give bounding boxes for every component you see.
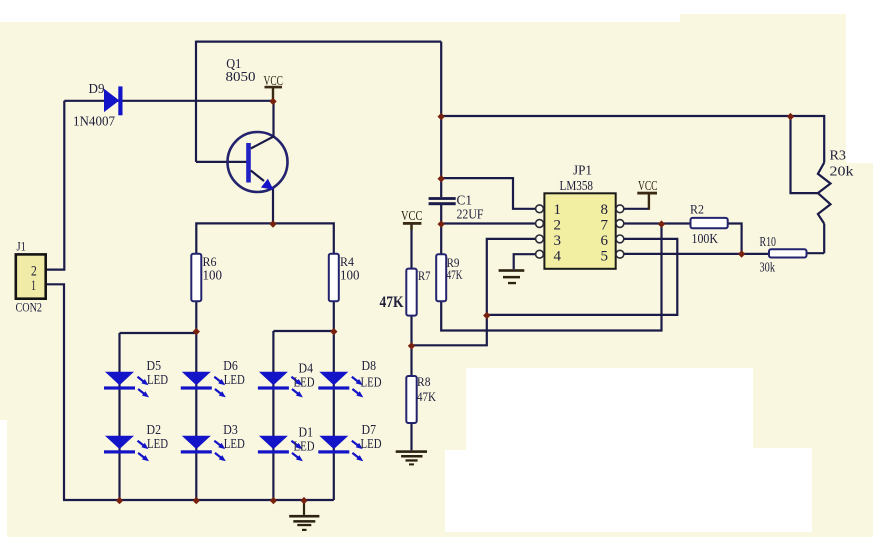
node ground tap — [300, 497, 307, 504]
wire main vertical C1 chain — [440, 42, 442, 198]
wire R3 tap — [791, 116, 819, 193]
wire LED column 2 — [195, 301, 197, 500]
wire left vertical to base — [195, 41, 197, 162]
svg-text:R8: R8 — [417, 374, 431, 389]
svg-text:20k: 20k — [830, 164, 854, 179]
wire bottom bus — [63, 499, 334, 501]
wire pin3 net — [412, 239, 537, 345]
svg-text:D5: D5 — [147, 358, 162, 373]
wire base — [196, 161, 247, 163]
VCC stub Q1 — [272, 88, 274, 101]
wire pin7 net — [624, 222, 691, 224]
svg-text:47K: 47K — [380, 294, 404, 311]
svg-text:LED: LED — [224, 372, 245, 387]
connector J1 — [16, 254, 46, 298]
svg-text:R2: R2 — [690, 202, 704, 217]
svg-text:22UF: 22UF — [457, 207, 484, 222]
diode D9 — [104, 86, 123, 115]
wire pin2 net — [441, 222, 536, 224]
LED D6 — [181, 372, 226, 398]
svg-text:100: 100 — [203, 268, 223, 283]
op-amp U1 JP1 box — [544, 193, 615, 268]
ground U1 pin4 — [499, 269, 525, 284]
wire LED column 3 — [272, 331, 274, 500]
svg-text:D3: D3 — [223, 422, 238, 437]
svg-text:D7: D7 — [362, 422, 377, 437]
svg-text:VCC: VCC — [264, 73, 284, 88]
LED D4 — [258, 372, 303, 398]
svg-text:VCC: VCC — [638, 178, 658, 193]
node R6 bottom — [193, 328, 200, 335]
wire R8 to ground — [410, 423, 412, 450]
wire LED column 1 — [118, 333, 120, 500]
svg-text:D4: D4 — [299, 361, 314, 376]
svg-text:C1: C1 — [457, 193, 473, 208]
svg-text:100K: 100K — [692, 231, 719, 246]
VCC bar U1 — [637, 192, 657, 195]
pin circles right — [616, 205, 624, 213]
svg-text:J1: J1 — [17, 239, 27, 254]
svg-text:CON2: CON2 — [16, 300, 43, 315]
svg-text:1: 1 — [31, 278, 36, 294]
svg-text:LED: LED — [147, 436, 168, 451]
svg-text:LM358: LM358 — [560, 178, 594, 193]
resistor R3 zigzag — [818, 163, 831, 224]
svg-text:LED: LED — [224, 436, 245, 451]
wire emitter vertical — [272, 188, 274, 223]
wire top bus — [196, 40, 441, 42]
svg-text:LED: LED — [294, 439, 315, 454]
svg-text:8: 8 — [601, 202, 609, 218]
svg-text:3: 3 — [554, 233, 562, 249]
resistor R4 — [329, 254, 339, 302]
resistor R8 — [406, 376, 416, 423]
svg-text:LED: LED — [361, 436, 382, 451]
LED D3 — [181, 436, 226, 462]
node emitter — [269, 220, 276, 227]
wire R9 bottom to pin7 riser — [441, 224, 661, 331]
svg-text:5: 5 — [601, 249, 609, 265]
svg-text:30k: 30k — [760, 260, 776, 275]
svg-text:47K: 47K — [447, 267, 463, 282]
LED D2 — [104, 436, 149, 462]
wire pin3 to pin6 — [487, 239, 678, 315]
svg-text:R10: R10 — [760, 234, 777, 249]
VCC bar R7 — [403, 222, 422, 225]
wire D9 net — [64, 100, 273, 102]
capacitor C1 — [429, 197, 456, 205]
svg-text:R7: R7 — [418, 268, 431, 283]
svg-text:4: 4 — [554, 249, 562, 265]
node pin7/R9/R2 — [658, 220, 665, 227]
node R3 branch — [438, 113, 445, 120]
wire segment col1 to R6 bottom — [120, 332, 197, 334]
svg-text:R3: R3 — [830, 148, 847, 163]
svg-text:8050: 8050 — [226, 69, 256, 84]
LED D1 — [258, 436, 303, 462]
ground LED bus — [289, 500, 319, 531]
wire pin4 net — [514, 254, 536, 269]
VCC stub U1 pin8 — [648, 195, 650, 210]
svg-text:D9: D9 — [89, 81, 105, 96]
wire R3 bottom — [823, 224, 825, 254]
wire J1 pin1 drop — [46, 284, 64, 500]
LED D7 — [318, 436, 363, 462]
svg-text:LED: LED — [361, 375, 382, 390]
resistor R2 — [691, 218, 728, 228]
VCC stub R7 — [410, 225, 412, 231]
svg-text:LED: LED — [294, 375, 315, 390]
wire LED column 4 — [333, 301, 335, 500]
node R7/R8 — [408, 342, 415, 349]
wire emitter bus — [196, 223, 333, 253]
svg-text:1N4007: 1N4007 — [73, 115, 115, 130]
svg-text:D1: D1 — [299, 425, 314, 440]
LED D8 — [318, 372, 363, 398]
wire R2 to pin5 — [728, 224, 742, 254]
svg-text:100: 100 — [340, 268, 360, 283]
wire J1 pin2 riser — [46, 101, 64, 270]
svg-text:LED: LED — [147, 372, 168, 387]
node R4 bottom — [330, 328, 337, 335]
wire pin1 net — [441, 178, 536, 209]
svg-text:D6: D6 — [223, 358, 238, 373]
wire pin8 net — [624, 208, 649, 210]
svg-text:D2: D2 — [147, 422, 162, 437]
svg-text:VCC: VCC — [401, 208, 423, 223]
resistor R7 — [406, 269, 416, 316]
wire collector vertical — [272, 101, 274, 137]
transistor Q1 — [228, 132, 288, 192]
pin circles left — [536, 205, 624, 258]
wire R10 to R3 — [807, 252, 825, 254]
node R3 top — [787, 113, 794, 120]
node collector/VCC/D9 — [269, 98, 276, 105]
VCC bar Q1 — [265, 86, 283, 89]
svg-text:JP1: JP1 — [573, 163, 592, 178]
node R2/pin5/R10 — [738, 250, 745, 257]
wire pin5 net — [624, 253, 770, 255]
wire segment col3 to R4 bottom — [273, 330, 333, 332]
node pin1 branch — [438, 175, 445, 182]
LED D5 — [104, 372, 149, 398]
svg-text:1: 1 — [554, 202, 562, 218]
svg-text:7: 7 — [601, 218, 609, 234]
wire R3 feed — [441, 116, 824, 163]
node col3 bottom — [270, 497, 277, 504]
svg-text:D8: D8 — [362, 358, 377, 373]
resistor R9 — [436, 254, 446, 301]
resistor R6 — [191, 254, 201, 302]
svg-text:2: 2 — [554, 218, 562, 234]
svg-text:47K: 47K — [417, 389, 437, 404]
node pin3/pin6 — [483, 312, 490, 319]
node pin2/C1/R9 — [438, 220, 445, 227]
node col1 bottom — [116, 497, 123, 504]
node col2 bottom — [193, 497, 200, 504]
wire R7 chain — [410, 225, 412, 269]
svg-text:6: 6 — [601, 233, 609, 249]
resistor R10 — [769, 249, 807, 257]
ground R8 — [396, 450, 427, 465]
